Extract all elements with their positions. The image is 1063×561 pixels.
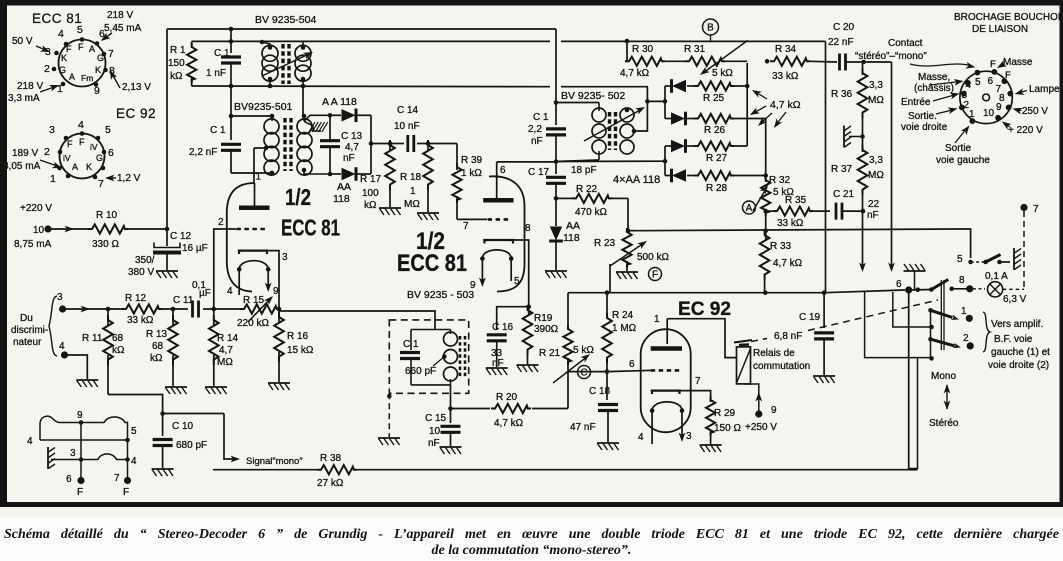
node y198 — [554, 196, 559, 201]
svg-text:4: 4 — [227, 286, 233, 297]
triode U1b envelope — [489, 176, 525, 291]
svg-text:C 15: C 15 — [425, 413, 447, 424]
svg-text:R 34: R 34 — [775, 44, 797, 55]
svg-text:7: 7 — [114, 473, 120, 484]
svg-text:Lampe: Lampe — [1029, 84, 1060, 95]
tank top wire — [411, 329, 451, 331]
capacitor C16 33nF — [487, 335, 507, 341]
svg-text:F: F — [990, 59, 996, 70]
diode pair D3 D4 input — [663, 159, 668, 164]
svg-text:R 32: R 32 — [769, 175, 791, 186]
bus line y29 — [167, 28, 556, 30]
svg-text:+250 V: +250 V — [1016, 106, 1048, 117]
resistor R38 27k — [317, 465, 357, 474]
svg-text:0,1 A: 0,1 A — [985, 271, 1008, 282]
svg-text:nF: nF — [867, 210, 879, 221]
svg-text:A: A — [746, 203, 753, 214]
svg-text:16 µF: 16 µF — [182, 243, 208, 254]
diode D3 AA118 — [665, 145, 671, 147]
svg-text:8: 8 — [959, 275, 965, 286]
svg-text:4: 4 — [131, 456, 137, 467]
resistor R16 15k — [278, 309, 280, 322]
svg-text:4,7 kΩ: 4,7 kΩ — [494, 418, 524, 429]
svg-text:8,75 mA: 8,75 mA — [14, 239, 52, 250]
wire R39 to grid pin7 tube2 — [457, 218, 487, 220]
ground — [152, 469, 174, 476]
heater pin9 wire arrow — [267, 269, 269, 288]
ground — [440, 447, 462, 454]
heater diagram rail 3-4 with hump — [51, 454, 128, 460]
svg-text:Sortie.: Sortie. — [908, 111, 937, 122]
svg-text:F: F — [79, 137, 85, 147]
chassis tap — [860, 134, 865, 139]
secondary tap to chassis — [304, 121, 313, 131]
bus x862 down arrow — [862, 211, 864, 268]
vertical x556 from bus y29 — [555, 29, 557, 103]
wire with arrow — [66, 308, 122, 310]
tank core dashes — [459, 336, 462, 377]
potentiometer R31 5k — [685, 57, 725, 66]
svg-text:50 V: 50 V — [12, 36, 33, 47]
svg-text:Stéréo: Stéréo — [929, 418, 959, 429]
svg-text:Relais de: Relais de — [753, 348, 795, 359]
svg-text:4×AA 118: 4×AA 118 — [613, 174, 660, 186]
svg-text:6: 6 — [629, 359, 635, 370]
ground — [517, 365, 539, 372]
node C15 — [448, 406, 453, 411]
circled C — [578, 366, 591, 379]
svg-text:ECC 81: ECC 81 — [397, 250, 467, 277]
svg-text:AA: AA — [337, 181, 351, 193]
svg-text:9: 9 — [470, 280, 476, 291]
wire top y116 — [231, 115, 272, 117]
heater pin3 arrow — [681, 411, 683, 438]
svg-text:Sortie: Sortie — [945, 143, 972, 154]
resistor R1 150k — [191, 41, 193, 48]
connector pins — [975, 70, 981, 76]
svg-text:iV: iV — [90, 142, 98, 152]
wire bottom y173 — [231, 172, 272, 174]
diode AA118 upper — [330, 114, 341, 116]
svg-text:nF: nF — [343, 153, 355, 164]
svg-text:189 V: 189 V — [12, 148, 38, 159]
svg-text:R 15: R 15 — [243, 295, 265, 306]
grid dashes pin7 — [488, 218, 512, 221]
resistor R39 1k — [452, 163, 461, 203]
relay armature lines — [734, 340, 752, 343]
mechanical link bar — [940, 280, 942, 350]
svg-text:9: 9 — [94, 85, 100, 97]
line y292 — [568, 292, 824, 294]
svg-text:5: 5 — [105, 124, 111, 136]
svg-text:C 12: C 12 — [170, 231, 192, 242]
diode D2 AA118 — [665, 118, 671, 120]
resistor R25 — [694, 81, 734, 90]
svg-text:A: A — [72, 162, 78, 172]
svg-text:1: 1 — [410, 186, 416, 197]
svg-text:Vers amplif.: Vers amplif. — [991, 319, 1043, 330]
svg-text:1: 1 — [961, 306, 967, 317]
svg-text:EC 92: EC 92 — [678, 299, 731, 320]
svg-text:R 38: R 38 — [320, 453, 342, 464]
svg-text:R 16: R 16 — [287, 331, 309, 342]
ground — [700, 445, 722, 452]
resistor R20 4,7k — [451, 408, 491, 410]
svg-text:5: 5 — [514, 276, 520, 287]
capacitor C20 22nF — [840, 54, 846, 71]
svg-text:1: 1 — [50, 173, 56, 185]
svg-text:A A 118: A A 118 — [322, 96, 357, 108]
svg-text:330 Ω: 330 Ω — [92, 239, 119, 250]
circled A — [743, 201, 756, 214]
svg-text:8,05 mA: 8,05 mA — [3, 161, 41, 172]
svg-text:R 27: R 27 — [706, 153, 728, 164]
svg-text:R 23: R 23 — [594, 238, 616, 249]
svg-text:2,2 nF: 2,2 nF — [189, 147, 217, 158]
svg-text:kΩ: kΩ — [170, 71, 183, 82]
svg-text:100: 100 — [362, 188, 379, 199]
wire to R39 — [428, 143, 457, 145]
output node to C14 line y143 — [369, 141, 374, 146]
potentiometer R32 5k — [765, 176, 767, 183]
variable core arrow — [584, 109, 642, 141]
svg-text:nateur: nateur — [13, 337, 42, 348]
svg-text:9: 9 — [996, 102, 1002, 113]
bus x825 down — [825, 41, 827, 292]
ground — [156, 271, 178, 278]
transformer BV9235-504 right coil — [302, 41, 304, 47]
svg-text:2: 2 — [963, 333, 969, 344]
cathode — [483, 240, 514, 244]
svg-text:10 nF: 10 nF — [394, 121, 420, 132]
svg-text:6: 6 — [896, 279, 902, 290]
svg-text:Signal”mono”: Signal”mono” — [246, 456, 303, 467]
svg-text:6,3 V: 6,3 V — [1003, 294, 1027, 305]
ground — [165, 387, 187, 394]
tank tap — [433, 357, 445, 367]
svg-text:4: 4 — [58, 28, 64, 40]
svg-text:MΩ: MΩ — [404, 199, 420, 210]
grid tap wire pin1 tube1 — [254, 147, 266, 149]
potentiometer R21 5k — [563, 325, 572, 365]
bottom rail y86 — [192, 85, 550, 88]
svg-text:470 kΩ: 470 kΩ — [575, 207, 607, 218]
triode U1a envelope — [227, 183, 255, 292]
resistor R28 — [694, 171, 734, 180]
wire right vertical x371 — [370, 115, 372, 174]
wire R22 to R23 node — [627, 198, 629, 230]
svg-text:380 V: 380 V — [128, 267, 154, 278]
tank bottom wire — [411, 384, 451, 386]
svg-text:R 24: R 24 — [612, 310, 634, 321]
capacitor C13 4,7nF — [329, 115, 331, 140]
heater pin4 — [651, 411, 653, 444]
wire x231 down to trafo501 — [230, 86, 232, 116]
svg-text:C 18: C 18 — [589, 386, 611, 397]
node C10 — [160, 411, 165, 416]
resistor R34 33k — [770, 57, 810, 66]
resistor R10 330 ohm — [88, 224, 128, 233]
heater pins 6 7 F F — [80, 460, 82, 480]
svg-text:C 10: C 10 — [172, 421, 194, 432]
svg-text:MΩ: MΩ — [868, 170, 884, 181]
svg-text:Du: Du — [20, 313, 33, 324]
feed x864 to contact2 — [865, 292, 931, 358]
svg-text:2,13 V: 2,13 V — [122, 82, 151, 93]
resistor R14 4,7M — [213, 309, 215, 325]
svg-text:500 kΩ: 500 kΩ — [637, 252, 669, 263]
matrix right vertical R25-R27 — [746, 63, 748, 146]
svg-text:EC 92: EC 92 — [116, 106, 156, 121]
ground — [379, 208, 401, 215]
svg-text:A: A — [69, 72, 75, 82]
ground — [545, 271, 567, 278]
capacitor C1 1nF — [221, 57, 241, 63]
svg-text:33 kΩ: 33 kΩ — [127, 315, 154, 326]
svg-text:4: 4 — [27, 436, 33, 447]
svg-text:C 1: C 1 — [210, 125, 226, 136]
svg-text:BV 9235 - 503: BV 9235 - 503 — [407, 289, 474, 301]
svg-text:B.F. voie: B.F. voie — [994, 334, 1033, 345]
svg-text:F: F — [77, 487, 83, 498]
EC92 envelope — [641, 329, 691, 432]
resistor R35 33k — [763, 209, 768, 214]
chassis ground left — [48, 447, 55, 469]
node R34 — [765, 59, 770, 64]
heater diagram pin9 to pin3 — [80, 423, 82, 460]
svg-text:C 11: C 11 — [173, 295, 194, 306]
svg-text:C 21: C 21 — [833, 189, 855, 200]
wire — [128, 228, 167, 230]
capacitor C18 47nF — [606, 372, 608, 400]
line y292 to switch 6 — [824, 290, 905, 293]
resistor R27 — [694, 141, 734, 150]
grid dashes pin6 — [651, 369, 681, 372]
svg-text:C 1: C 1 — [214, 48, 230, 59]
svg-text:7: 7 — [463, 221, 469, 232]
svg-text:C 13: C 13 — [341, 131, 363, 142]
cathode wire to R29 — [681, 391, 711, 402]
svg-text:3: 3 — [45, 46, 51, 58]
svg-text:F: F — [78, 42, 84, 52]
svg-text:6: 6 — [500, 165, 506, 176]
svg-text:R 20: R 20 — [496, 392, 518, 403]
wire y41 to wiper — [825, 40, 827, 42]
potentiometer R15 220k — [240, 304, 280, 313]
node pin8 — [526, 304, 531, 309]
capacitor C14 10nF — [390, 143, 404, 145]
svg-text:voie gauche: voie gauche — [936, 155, 990, 166]
svg-text:R 17: R 17 — [360, 174, 382, 185]
svg-text:“stéréo”–“mono”: “stéréo”–“mono” — [855, 51, 927, 62]
svg-text:commutation: commutation — [753, 361, 810, 372]
svg-text:R 18: R 18 — [400, 172, 422, 183]
svg-text:MΩ: MΩ — [217, 357, 233, 368]
diode D4 AA118 — [665, 175, 671, 177]
svg-text:4,7: 4,7 — [219, 345, 233, 356]
svg-text:2: 2 — [218, 217, 224, 228]
wire R23 wiper to line y293 — [609, 264, 611, 293]
resistor R26 — [694, 114, 734, 123]
svg-text:33 kΩ: 33 kΩ — [772, 71, 799, 82]
svg-text:47 nF: 47 nF — [570, 422, 596, 433]
svg-text:118: 118 — [333, 193, 350, 205]
svg-text:R 21: R 21 — [539, 348, 561, 359]
resistor R30 4,7k — [626, 41, 628, 61]
svg-text:660 pF: 660 pF — [405, 366, 436, 377]
node grid wire R14 — [203, 308, 242, 310]
svg-text:3: 3 — [962, 90, 968, 101]
svg-text:150: 150 — [168, 58, 185, 69]
svg-text:390Ω: 390Ω — [534, 324, 559, 335]
svg-text:680 pF: 680 pF — [176, 440, 207, 451]
svg-text:+ 220 V: + 220 V — [1008, 125, 1043, 136]
anode plate — [651, 346, 682, 351]
svg-text:Mono: Mono — [931, 371, 956, 382]
svg-text:K: K — [61, 53, 67, 63]
cathode pin7 — [651, 391, 681, 394]
svg-text:AA: AA — [566, 220, 580, 232]
svg-text:5 kΩ: 5 kΩ — [573, 345, 594, 356]
capacitor C12 16uF electrolytic — [166, 229, 168, 246]
svg-text:118: 118 — [563, 232, 580, 244]
svg-text:R 36: R 36 — [831, 89, 853, 100]
svg-text:218 V: 218 V — [107, 10, 133, 21]
resistor R18 1M — [427, 144, 429, 151]
svg-text:+220 V: +220 V — [20, 203, 52, 214]
wire y161 secondary return — [556, 160, 665, 162]
svg-text:3,3: 3,3 — [869, 80, 883, 91]
resistor R22 470k — [556, 197, 572, 199]
svg-text:4: 4 — [638, 432, 644, 443]
left column verticals — [930, 310, 932, 358]
svg-text:7: 7 — [108, 48, 114, 60]
svg-text:kΩ: kΩ — [364, 200, 377, 211]
wire trafo504 to trafo501 right x303 — [302, 86, 304, 116]
svg-text:5: 5 — [957, 254, 963, 265]
heater diagram rail 4-5 — [40, 439, 128, 441]
capacitor C11 0,1uF — [193, 301, 199, 318]
trafo-502 bottom wire — [556, 160, 599, 162]
svg-text:F: F — [652, 270, 658, 281]
svg-text:2: 2 — [44, 146, 50, 158]
svg-text:G: G — [59, 65, 66, 75]
svg-text:C 14: C 14 — [397, 105, 419, 116]
svg-text:G: G — [97, 53, 104, 63]
anode plate — [483, 198, 513, 203]
svg-text:3: 3 — [686, 431, 692, 442]
svg-text:R 1: R 1 — [170, 45, 186, 56]
svg-text:BV9235-501: BV9235-501 — [234, 101, 293, 113]
transformer BV9235-501 core — [283, 118, 286, 171]
svg-text:8: 8 — [525, 223, 531, 234]
svg-text:6: 6 — [66, 474, 72, 485]
svg-text:1: 1 — [256, 172, 262, 183]
svg-text:Contact: Contact — [888, 38, 923, 49]
svg-text:gauche (1) et: gauche (1) et — [991, 347, 1050, 358]
dashed linkage relay to switch — [751, 339, 767, 342]
R31 wiper arrow — [703, 40, 748, 73]
svg-text:MΩ: MΩ — [868, 95, 884, 106]
dashed wire from 7 — [1023, 211, 1025, 289]
heater arc — [239, 261, 268, 270]
svg-text:350/: 350/ — [135, 255, 155, 266]
svg-text:1: 1 — [57, 83, 63, 95]
svg-text:1 nF: 1 nF — [206, 68, 226, 79]
svg-text:218 V: 218 V — [17, 81, 43, 92]
svg-text:4: 4 — [966, 80, 972, 91]
transformer BV9235-504 core — [281, 44, 284, 84]
svg-text:voie droite (2): voie droite (2) — [988, 360, 1049, 371]
trafo-501 terminal dots — [270, 114, 275, 119]
lamp 0,1A — [988, 282, 1003, 297]
node B line — [625, 39, 630, 44]
svg-text:C 16: C 16 — [492, 322, 514, 333]
svg-text:DE LIAISON: DE LIAISON — [972, 24, 1028, 35]
resistor R24 1M — [606, 358, 608, 372]
svg-text:BV 9235- 502: BV 9235- 502 — [561, 90, 625, 102]
line y230 — [628, 229, 956, 231]
svg-text:9: 9 — [771, 405, 777, 416]
svg-text:5,45 mA: 5,45 mA — [104, 23, 142, 34]
matrix right vertical R26-R28 — [765, 119, 767, 176]
svg-text:R 33: R 33 — [770, 241, 792, 252]
ground — [616, 272, 638, 279]
resistor R12 33k — [122, 304, 162, 313]
trafo-504 terminal dots — [301, 45, 306, 50]
variable core arrow — [262, 53, 311, 76]
svg-text:1: 1 — [969, 109, 975, 120]
dashed enclosure box — [389, 320, 468, 393]
svg-text:C 20: C 20 — [833, 22, 855, 33]
svg-text:K: K — [86, 162, 92, 172]
svg-text:3: 3 — [49, 124, 55, 136]
svg-text:R 13: R 13 — [146, 329, 168, 340]
svg-text:5: 5 — [77, 24, 83, 36]
capacitor C17 18pF — [555, 162, 557, 175]
wire R21 top — [567, 293, 569, 330]
diode D1 AA118 — [665, 85, 671, 87]
relay box — [737, 347, 751, 384]
svg-text:7: 7 — [695, 376, 701, 387]
svg-text:R 29: R 29 — [714, 408, 736, 419]
svg-text:1 kΩ: 1 kΩ — [461, 168, 482, 179]
svg-text:15 kΩ: 15 kΩ — [287, 345, 314, 356]
svg-text:R 10: R 10 — [96, 210, 118, 221]
feed x892 to contact1 — [893, 292, 931, 327]
svg-text:10: 10 — [429, 426, 441, 437]
wire secondary bottom to diode AA118 lower — [304, 170, 330, 174]
riser x917 from bottom line — [909, 358, 918, 469]
svg-text:4: 4 — [59, 341, 65, 352]
svg-text:Entrée: Entrée — [901, 97, 931, 108]
svg-text:1/2: 1/2 — [285, 184, 311, 210]
svg-text:C: C — [580, 368, 587, 379]
svg-text:220 kΩ: 220 kΩ — [237, 318, 269, 329]
svg-text:3: 3 — [57, 292, 63, 303]
node y161 — [554, 159, 559, 164]
svg-text:R 25: R 25 — [703, 93, 725, 104]
svg-text:3,3 mA: 3,3 mA — [8, 93, 40, 104]
trafo-502 core — [608, 112, 611, 150]
resistor R11 68k — [106, 307, 111, 312]
wire to C16 — [497, 307, 529, 330]
wire +220V riser x167 — [166, 29, 168, 229]
ground — [597, 443, 619, 450]
dashed ground stub — [388, 393, 390, 437]
svg-text:C 19: C 19 — [799, 312, 821, 323]
svg-text:1,2 V: 1,2 V — [117, 173, 141, 184]
